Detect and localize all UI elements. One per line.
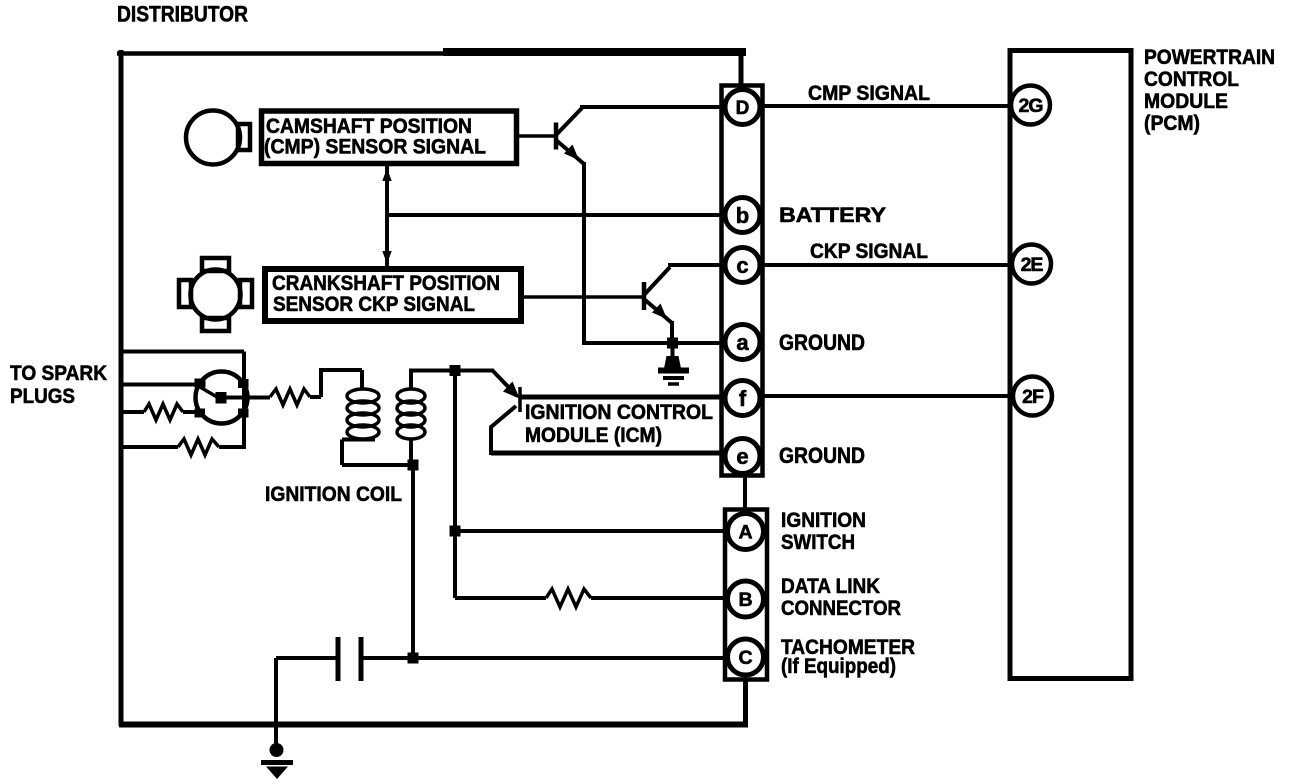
svg-text:CKP SIGNAL: CKP SIGNAL <box>810 239 928 263</box>
wire c to 2E (CKP signal) <box>762 263 1012 267</box>
svg-text:CMP SIGNAL: CMP SIGNAL <box>808 81 930 105</box>
junction tachometer node <box>408 653 419 664</box>
label TACHOMETER (If Equipped) <box>781 635 915 678</box>
wire f to 2F <box>764 394 1014 398</box>
svg-text:GROUND: GROUND <box>779 443 865 468</box>
svg-text:IGNITION COIL: IGNITION COIL <box>265 482 402 506</box>
ground symbol G1 bars <box>658 371 689 385</box>
resistor R3 rotor to coil <box>270 389 310 405</box>
junction ground node <box>667 338 678 349</box>
wire Q1 collector to pin D <box>580 105 726 109</box>
wire R1 to rotor <box>183 410 197 414</box>
ICM arrowhead <box>503 382 520 399</box>
transistor Q1 emitter arrow <box>564 145 579 161</box>
CMP sensor circle <box>186 111 240 165</box>
CKP sensor tab top <box>202 258 229 271</box>
wire D to 2G (CMP signal) <box>763 104 1012 108</box>
wire battery feed vertical between sensors <box>385 166 389 266</box>
transistor Q2 emitter <box>644 299 672 323</box>
svg-text:C: C <box>738 647 752 669</box>
svg-text:2G: 2G <box>1018 95 1042 117</box>
wire coil bottom vertical <box>411 465 415 658</box>
svg-text:DATA LINK: DATA LINK <box>781 574 880 598</box>
label CRANKSHAFT POSITION SENSOR CKP SIGNAL <box>272 272 500 316</box>
ground symbol G1 triangle <box>664 356 681 369</box>
coil primary bottom exit <box>342 440 413 466</box>
wire capacitor left <box>276 656 336 660</box>
svg-text:f: f <box>739 386 747 411</box>
svg-text:2F: 2F <box>1022 386 1044 408</box>
svg-text:MODULE: MODULE <box>1144 89 1228 113</box>
wire coil top to ICM junction <box>409 369 494 373</box>
wire ignition switch to pin A <box>455 529 728 533</box>
ignition coil primary winding <box>347 389 379 439</box>
wire R4 to pin B <box>591 596 728 600</box>
ICM connector bar <box>518 387 522 412</box>
ground symbol G2 bar <box>261 760 293 765</box>
CKP sensor tab left <box>179 280 191 307</box>
svg-text:(CMP) SENSOR SIGNAL: (CMP) SENSOR SIGNAL <box>264 136 486 159</box>
rotor center contact <box>216 392 227 404</box>
svg-text:(If Equipped): (If Equipped) <box>781 654 896 678</box>
svg-text:A: A <box>738 522 752 544</box>
distributor box outline bottom edge <box>119 722 748 728</box>
connector pin f <box>725 381 760 416</box>
wire Q1 emitter vertical <box>582 162 586 343</box>
rotor arm <box>200 387 217 397</box>
junction ignition switch node <box>450 526 461 537</box>
svg-text:D: D <box>736 98 750 119</box>
rotor contact lower left <box>195 409 206 418</box>
svg-text:IGNITION CONTROL: IGNITION CONTROL <box>525 401 713 424</box>
spark plug stub wire 2 <box>120 383 197 387</box>
svg-text:POWERTRAIN: POWERTRAIN <box>1144 45 1275 69</box>
svg-text:a: a <box>736 330 749 355</box>
svg-text:(PCM): (PCM) <box>1144 111 1200 135</box>
svg-text:GROUND: GROUND <box>779 330 865 355</box>
wire ground to pin a <box>582 341 726 345</box>
connector pin a <box>725 325 760 360</box>
wire vertical coil junction down <box>453 369 457 598</box>
connector pin e <box>725 439 760 474</box>
CKP sensor circle <box>191 270 241 320</box>
wire ICM to pin e <box>491 451 727 456</box>
connector pin A <box>728 514 764 550</box>
label IGNITION SWITCH <box>781 508 866 554</box>
spark plug stub wire 4 <box>120 445 178 449</box>
ground symbol G2 triangle <box>266 767 288 780</box>
rotor contact lower right <box>238 409 249 418</box>
resistor R4 <box>546 589 591 607</box>
transistor Q1 emitter <box>556 140 584 164</box>
ICM left bracket <box>491 406 516 455</box>
connector pin C <box>728 639 764 675</box>
connector pin b <box>725 198 760 233</box>
wire R2 to bypass <box>219 445 246 449</box>
svg-text:BATTERY: BATTERY <box>779 203 886 227</box>
wire to resistor R4 <box>455 596 546 600</box>
wire Q2 collector to pin c <box>668 263 726 267</box>
svg-text:CONNECTOR: CONNECTOR <box>781 596 901 620</box>
capacitor C1 right plate <box>359 637 364 681</box>
distributor box outline left edge <box>119 50 124 726</box>
connector pin D <box>725 90 760 125</box>
PCM pin 2E <box>1012 245 1051 284</box>
svg-text:c: c <box>736 253 748 278</box>
wire capacitor down to ground <box>274 658 278 745</box>
svg-text:SENSOR CKP SIGNAL: SENSOR CKP SIGNAL <box>273 293 475 316</box>
wire ICM to pin f <box>520 395 727 400</box>
ground symbol G1 stem <box>671 343 675 357</box>
coil secondary top riser <box>409 369 413 390</box>
transistor Q1 collector <box>556 108 582 135</box>
svg-text:IGNITION: IGNITION <box>781 508 866 532</box>
junction coil top node <box>450 365 461 376</box>
capacitor C1 left plate <box>336 637 341 681</box>
transistor Q1 base bar <box>554 123 559 150</box>
ground symbol G2 blob <box>270 743 284 757</box>
wire R3 to coil top <box>310 370 362 397</box>
distributor box outline right-top stub to connector D <box>739 52 744 86</box>
svg-text:TO SPARK: TO SPARK <box>10 361 107 385</box>
wire diagonal to ICM arrow <box>492 370 517 396</box>
CKP sensor tab right <box>240 280 252 307</box>
junction coil bottom node <box>408 460 419 471</box>
PCM box <box>1010 51 1131 679</box>
arrow down into CKP box <box>382 251 391 264</box>
CMP sensor box <box>262 111 517 164</box>
svg-text:B: B <box>738 589 752 611</box>
svg-text:SWITCH: SWITCH <box>781 530 855 554</box>
wire capacitor to pin C <box>363 656 728 660</box>
ignition coil secondary winding <box>397 389 425 439</box>
transistor Q2 base wire <box>522 295 642 299</box>
distributor box outline top edge <box>117 51 446 56</box>
label IGNITION CONTROL MODULE (ICM) <box>525 401 713 447</box>
upper connector strip <box>722 86 763 476</box>
CKP sensor tab bottom <box>202 318 229 331</box>
label CAMSHAFT POSITION (CMP) SENSOR SIGNAL <box>264 115 486 159</box>
CMP sensor tab <box>238 124 250 150</box>
PCM pin 2G <box>1011 86 1050 125</box>
CKP sensor box <box>265 269 521 321</box>
distributor box outline right-bottom stub from connector C <box>743 679 748 726</box>
coil secondary bottom riser <box>409 438 413 466</box>
connector pin c <box>725 248 760 283</box>
transistor Q2 base bar <box>642 282 647 310</box>
label POWERTRAIN CONTROL MODULE (PCM) <box>1144 45 1275 135</box>
wire Q2 emitter vertical <box>670 321 674 343</box>
spark plug stub wire 3 <box>120 410 144 414</box>
arrow up into CMP box <box>382 168 391 181</box>
svg-text:PLUGS: PLUGS <box>10 384 75 408</box>
wire battery horizontal to pin b <box>387 213 726 217</box>
resistor R2 <box>178 439 219 455</box>
wire pin e to pin A <box>743 474 747 512</box>
connector pin B <box>728 581 764 617</box>
spark plug stub wire 1 <box>120 350 244 354</box>
svg-text:DISTRIBUTOR: DISTRIBUTOR <box>117 2 248 27</box>
svg-text:CONTROL: CONTROL <box>1144 67 1239 91</box>
svg-text:b: b <box>736 203 749 228</box>
transistor Q1 base wire <box>519 134 554 138</box>
transistor Q2 collector <box>644 267 670 295</box>
label DATA LINK CONNECTOR <box>781 574 901 620</box>
rotor contact upper left <box>195 379 206 388</box>
label TO SPARK PLUGS <box>10 361 107 408</box>
rotor contact upper right <box>238 379 249 388</box>
svg-text:2E: 2E <box>1021 254 1044 276</box>
svg-text:MODULE (ICM): MODULE (ICM) <box>525 424 662 447</box>
resistor R1 <box>144 404 183 420</box>
lower connector strip <box>725 510 767 680</box>
svg-text:CRANKSHAFT POSITION: CRANKSHAFT POSITION <box>272 272 500 295</box>
spark plug bypass vertical <box>242 352 246 448</box>
rotor output wire <box>222 396 270 400</box>
PCM pin 2F <box>1013 377 1052 416</box>
transistor Q2 emitter arrow <box>652 304 667 320</box>
distributor rotor circle <box>196 372 248 424</box>
svg-text:e: e <box>736 444 748 469</box>
